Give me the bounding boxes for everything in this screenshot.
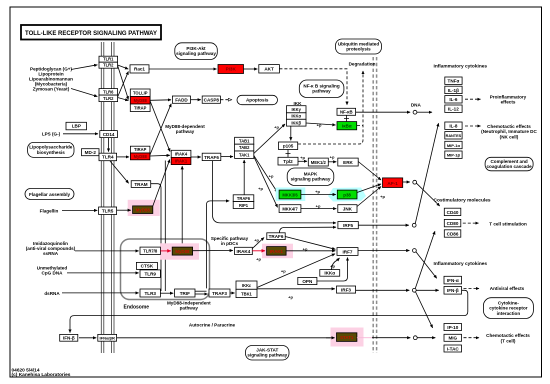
wire TLR4 to TRAM diagonal (110, 161, 129, 183)
svg-text:TLR2: TLR2 (103, 63, 114, 68)
box TAB2 (235, 144, 254, 151)
wire TRAF6 to TAK1 (221, 156, 233, 158)
svg-text:JNK: JNK (343, 207, 353, 212)
svg-text:IκBα: IκBα (342, 124, 352, 129)
svg-text:RIP1: RIP1 (239, 203, 249, 208)
box PI3K red (218, 65, 244, 74)
label Proinflammatory effects (490, 95, 527, 105)
svg-text:signaling pathway: signaling pathway (247, 353, 287, 358)
wire STAT1 to circle6 (372, 337, 410, 339)
box ERK (338, 158, 358, 166)
box STAT1 dark (337, 333, 357, 342)
wire dashed into NF-kB top already; complex tick NF-kB/IkBa (344, 115, 349, 121)
svg-text:+p: +p (281, 268, 286, 273)
box IFN-beta left (60, 334, 78, 341)
wire JNK to AP-1 (357, 187, 381, 207)
svg-text:Costimulatory molecules: Costimulatory molecules (434, 198, 491, 204)
svg-text:Degradation: Degradation (349, 62, 376, 67)
box TLR9 (140, 270, 160, 278)
box p38 green (337, 190, 357, 199)
svg-text:MIP-1β: MIP-1β (447, 153, 461, 158)
svg-text:I-TAC: I-TAC (447, 346, 460, 351)
box TLR7/8 (140, 247, 160, 254)
wire MyD88 TLR5 to IRAK4 diagonal (153, 160, 170, 207)
box MD-2 (82, 149, 100, 156)
wire Tpl2 to MEK12 (298, 160, 307, 162)
box TLR2b (99, 95, 118, 102)
svg-text:effects: effects (501, 100, 516, 105)
wire STAT1 out pink segment (357, 337, 372, 339)
halo pink MyD88 endosome (160, 243, 199, 259)
plasma membrane double lines (101, 42, 114, 353)
svg-text:+p: +p (303, 247, 308, 252)
box MyD88 red (TLR4) (130, 153, 150, 160)
wire CASP8 dashed to Apoptosis open arrow (220, 99, 231, 101)
svg-text:interaction: interaction (497, 311, 521, 316)
wire circle5 up to CD86 (415, 231, 435, 288)
box IRAK1 pdc dark (267, 247, 287, 256)
svg-text:MyD88: MyD88 (136, 208, 151, 213)
svg-text:IRF3: IRF3 (341, 288, 351, 293)
box FADD (172, 96, 190, 103)
node circle3 (412, 223, 416, 227)
svg-text:IKKε: IKKε (242, 283, 251, 288)
wire dashed IFNb to antiviral (464, 288, 480, 290)
label Imidazoquinolin (26, 241, 76, 256)
svg-text:TRAF6: TRAF6 (269, 234, 284, 239)
box MEK1/2 (308, 158, 328, 166)
svg-text:MKK4/7: MKK4/7 (282, 207, 298, 212)
svg-text:p38: p38 (343, 193, 351, 198)
svg-text:in pDCs: in pDCs (221, 241, 239, 246)
node circle5 (412, 288, 416, 292)
wire AKT dashed to NF-kB (279, 69, 347, 105)
box IKKeps (236, 281, 257, 289)
wire TAK1 to MKK36 (254, 156, 278, 193)
box IRAK1 red (171, 157, 191, 164)
wire imidazoquinolin to TLR7/8 (75, 250, 139, 252)
svg-text:biosynthesis: biosynthesis (37, 150, 66, 155)
halo cyan MKK36 (276, 188, 306, 202)
wire TLR3 to TRIF (160, 292, 173, 294)
box TRAF3 (209, 289, 230, 297)
svg-text:T cell stimulation: T cell stimulation (489, 221, 527, 226)
wire IKKb down to p105 (290, 126, 292, 140)
svg-text:IRAK4: IRAK4 (237, 249, 251, 254)
svg-text:IKKγ: IKKγ (292, 107, 302, 112)
wire peptidoglycan to TLR2 (71, 65, 97, 70)
svg-text:coagulation cascade: coagulation cascade (486, 164, 532, 169)
svg-text:TRAM: TRAM (134, 182, 147, 187)
stadium Apoptosis (237, 95, 278, 104)
X wires TLR2 pair to Rac1 and MyD88 stack (118, 65, 129, 69)
box TIRAP (TLR2) (130, 104, 150, 112)
svg-text:IFN-β: IFN-β (447, 288, 459, 293)
wire TLR5 to MyD88 (117, 209, 131, 211)
wire TRAF6pdc elbow to IRF5 (279, 227, 336, 233)
svg-text:TNFα: TNFα (448, 79, 460, 84)
svg-text:MyD88: MyD88 (134, 98, 148, 103)
svg-text:CD80: CD80 (447, 221, 459, 226)
stadium MAPK signaling pathway (287, 168, 334, 186)
svg-text:TRAF6: TRAF6 (204, 155, 219, 160)
svg-text:MIP-1α: MIP-1α (447, 143, 461, 148)
box TRIF (175, 289, 195, 297)
wire circle3 to IL8 group long diagonal (415, 123, 438, 223)
svg-text:IL-8: IL-8 (449, 124, 458, 129)
box TIRAP (TLR4) (130, 146, 150, 153)
svg-text:+p: +p (269, 174, 274, 179)
svg-text:FADD: FADD (175, 98, 188, 103)
svg-text:STAT1: STAT1 (340, 335, 354, 340)
wire MKK36 to p38 (301, 194, 336, 196)
wire IRAK4pdc to IRAK1pdc magenta (252, 250, 265, 252)
node circle6 (413, 336, 417, 340)
svg-text:TRAF3: TRAF3 (212, 291, 227, 296)
stadium JAK-STAT signaling pathway (246, 346, 290, 361)
svg-text:IL-1β: IL-1β (448, 88, 459, 93)
svg-text:TRIF: TRIF (180, 291, 190, 296)
svg-text:IP-10: IP-10 (447, 325, 458, 330)
wire circle4 to IFN-a (416, 252, 437, 278)
wire Rac1 to PI3K (149, 68, 217, 70)
wire CpG to TLR9 (67, 272, 139, 274)
box MIG (444, 334, 462, 341)
box Tpl2 (278, 157, 298, 165)
svg-text:TLR1: TLR1 (103, 57, 114, 62)
halo pink MyD88 TLR5 (128, 200, 160, 216)
stadium Complement and coagulation cascade (485, 157, 533, 171)
svg-text:PI3K: PI3K (226, 67, 237, 72)
halo cyan p38 (328, 188, 366, 202)
wire second vertical to TRIF (164, 161, 166, 292)
svg-text:MKK3/6: MKK3/6 (282, 193, 298, 198)
svg-text:TLR9: TLR9 (144, 272, 156, 277)
box IRAK4 pdc (235, 247, 253, 254)
svg-text:RANTES: RANTES (446, 134, 462, 138)
box RIP1 (233, 202, 254, 209)
node circle2 (413, 180, 417, 184)
wire TBK1 to IRF3 (257, 288, 335, 290)
stadium PI3K-Akt signaling pathway (175, 43, 218, 60)
box IL-8 (445, 122, 462, 129)
label Chemotactic effects (481, 124, 537, 139)
wire PI3K to AKT (244, 68, 258, 70)
svg-text:IFN-α: IFN-α (447, 278, 459, 283)
box TNFa (445, 77, 462, 84)
wire MyD88(TLR2) to FADD (150, 99, 171, 102)
stadium NF-kB signaling pathway (299, 80, 344, 98)
svg-text:+p: +p (258, 186, 263, 191)
label Peptidoglycan block (29, 67, 73, 92)
svg-text:IRAK1: IRAK1 (175, 159, 188, 164)
halo pink IRAK1 pdc (262, 244, 293, 259)
svg-text:TAK1: TAK1 (239, 152, 250, 157)
svg-text:TOLLIP: TOLLIP (133, 90, 148, 95)
svg-text:Zymosan (Yeast): Zymosan (Yeast) (33, 87, 70, 92)
svg-text:+p: +p (288, 294, 293, 299)
svg-text:Inflammatory cytokines: Inflammatory cytokines (434, 261, 488, 267)
svg-text:TIRAP: TIRAP (134, 147, 147, 152)
wire circle5 to IFN-b (416, 289, 439, 291)
svg-text:TLR2: TLR2 (103, 96, 114, 101)
svg-text:MyD88: MyD88 (134, 154, 148, 159)
svg-text:LPS (G-): LPS (G-) (42, 132, 61, 137)
svg-text:TRAF6: TRAF6 (237, 196, 251, 201)
node circle4 (413, 249, 417, 253)
wire TRAM elbow down to TRIF (151, 184, 161, 291)
box MKK3/6 green (279, 190, 301, 199)
box IKKgamma (287, 106, 307, 113)
box IRF7 (337, 248, 358, 256)
label Specific pathway in pDCs (211, 236, 249, 246)
svg-text:+p: +p (330, 155, 335, 160)
wire MKK47 to JNK (301, 208, 336, 210)
svg-text:+p: +p (300, 155, 305, 160)
box Rac1 (130, 65, 149, 73)
svg-text:pathway: pathway (176, 129, 195, 134)
box CD14 (100, 131, 118, 138)
svg-text:TAB1: TAB1 (239, 138, 250, 143)
svg-text:Autocrine / Paracrine: Autocrine / Paracrine (189, 322, 236, 327)
halo pink STAT1 (331, 328, 364, 347)
box TLR5 (99, 207, 117, 215)
box IFN-a (444, 276, 462, 284)
wire zymosan to TLR6/TLR2 (71, 89, 97, 97)
svg-text:CD14: CD14 (103, 132, 115, 137)
nuclear membrane dashed grey (373, 57, 376, 353)
svg-text:(NK cell): (NK cell) (500, 134, 519, 139)
box AKT (259, 65, 280, 73)
box CD80 (444, 219, 461, 226)
box TLR6 (99, 89, 118, 96)
box IL-12 (445, 105, 462, 112)
svg-text:IKKβ: IKKβ (291, 120, 301, 125)
box IP-10 (444, 324, 462, 331)
wire TLR4 to TIRAP stack (117, 156, 129, 158)
box MIP-1b (445, 151, 462, 158)
svg-text:pathway: pathway (180, 306, 199, 311)
label MyD88-independent pathway (167, 301, 211, 311)
wire dashed degradation path from p105 and IkBa (298, 71, 363, 144)
stadium Cytokine-cytokine receptor interaction (483, 298, 533, 319)
box LBP (66, 122, 87, 130)
box I-TAC (444, 345, 462, 352)
box IL-6 (445, 96, 462, 103)
wire TRAF3 to TBK1 (230, 292, 235, 294)
svg-text:(c) Kanehisa Laboratories: (c) Kanehisa Laboratories (12, 372, 71, 378)
wire MEK to ERK (328, 161, 336, 163)
svg-text:NF-κ B signaling: NF-κ B signaling (303, 83, 339, 88)
wire TRAF6 down elbow to IRF5 (213, 161, 337, 223)
svg-text:Antiviral effects: Antiviral effects (490, 286, 525, 291)
box IFNabR (98, 334, 117, 341)
box TLR4 (99, 153, 117, 161)
wire TLR7/8 to MyD88 magenta (160, 250, 170, 252)
svg-text:TIRAP: TIRAP (134, 105, 147, 110)
node circle1 DNA (413, 110, 417, 114)
svg-text:MAPK: MAPK (304, 171, 318, 176)
svg-text:MEK1/2: MEK1/2 (311, 160, 327, 165)
svg-text:LBP: LBP (72, 124, 81, 129)
stadium Ubiquitin mediated proteolysis (336, 39, 382, 54)
wire IKKb to IkBa (306, 123, 336, 125)
svg-text:pathway: pathway (312, 89, 331, 94)
svg-text:CpG DNA: CpG DNA (42, 270, 64, 275)
svg-text:Flagellar assembly: Flagellar assembly (29, 192, 71, 197)
box MyD88 dark endosome (172, 247, 192, 255)
box IRF5 (338, 222, 358, 229)
box IKKalpha2 (287, 113, 307, 120)
box CTSK (136, 262, 157, 269)
svg-text:Inflammatory cytokines: Inflammatory cytokines (434, 64, 488, 70)
box JNK (338, 205, 357, 213)
wire CD14 down to TLR4 (108, 138, 110, 152)
box TAB1 (235, 137, 254, 144)
svg-text:IFN-β: IFN-β (63, 336, 75, 341)
wire dsRNA to TLR3 (62, 292, 139, 294)
svg-text:IKK: IKK (294, 101, 303, 106)
wire arrowhead into STAT1 redraw (326, 337, 335, 339)
wire MyD88end to IRAK4pdc (193, 250, 233, 252)
box NF-kB (337, 108, 356, 115)
box TOLLIP (130, 89, 150, 97)
box CD86 (444, 230, 461, 237)
wire TRIF double line to TRAF3 (195, 290, 207, 292)
svg-text:dsRNA: dsRNA (44, 291, 60, 296)
svg-text:p105: p105 (283, 144, 294, 149)
svg-text:OPN: OPN (302, 279, 313, 284)
box IL-1b (445, 86, 462, 93)
svg-text:IKKα: IKKα (291, 114, 301, 119)
svg-text:+p: +p (254, 238, 259, 243)
svg-text:AP-1: AP-1 (387, 181, 398, 186)
wire MyD88(TLR4) to IRAK4 (150, 154, 170, 157)
svg-text:IFNα/βR: IFNα/βR (100, 335, 115, 340)
label Chemotactic effects (T cell) (486, 333, 530, 343)
wire flagellin to TLR5 (62, 209, 97, 211)
svg-text:TLR5: TLR5 (102, 208, 114, 213)
box IKKbeta (287, 119, 307, 126)
box TLR1 (99, 56, 118, 62)
wire IFNabR to STAT1 long (117, 337, 334, 339)
svg-text:+p: +p (317, 122, 322, 127)
wire TRAF6pdc to IRF7 diagonal (285, 237, 335, 250)
box MKK4/7 (279, 205, 301, 213)
svg-text:AKT: AKT (264, 67, 274, 72)
wire circle1 to cytokines (417, 111, 432, 113)
svg-text:TLR6: TLR6 (103, 89, 114, 94)
wire dashed IL8 to chemotactic (465, 125, 481, 127)
svg-text:IRAK1: IRAK1 (270, 249, 284, 254)
svg-text:TBK1: TBK1 (241, 291, 252, 296)
box TBK1 (236, 289, 257, 297)
svg-text:IL-12: IL-12 (448, 107, 459, 112)
tick p105/Tpl2 (286, 150, 291, 158)
svg-text:+p: +p (315, 189, 320, 194)
svg-text:ssRNA: ssRNA (43, 251, 59, 256)
box TRAF6 pdc (267, 233, 285, 240)
svg-text:MIG: MIG (448, 336, 457, 341)
box IkBa green (337, 122, 357, 130)
svg-text:IRF5: IRF5 (343, 223, 353, 228)
wire p38 to AP-1 (357, 184, 381, 193)
svg-text:signaling pathway: signaling pathway (291, 177, 331, 182)
svg-text:IRAK4: IRAK4 (175, 152, 188, 157)
box MIP-1a (445, 141, 462, 148)
svg-text:TLR4: TLR4 (102, 155, 114, 160)
box CD40 (444, 208, 461, 215)
wire IRF5 to circle3 (358, 224, 409, 226)
svg-text:IL-6: IL-6 (449, 97, 458, 102)
svg-text:Rac1: Rac1 (134, 67, 145, 72)
box OPN (298, 277, 317, 284)
svg-text:CASP8: CASP8 (204, 98, 220, 103)
svg-text:TAB2: TAB2 (239, 145, 250, 150)
title box (21, 25, 161, 40)
box MyD88 dark (TLR5) (133, 206, 153, 214)
svg-text:IRF7: IRF7 (343, 249, 353, 254)
svg-text:+p: +p (256, 256, 261, 261)
svg-text:TLR7/8: TLR7/8 (143, 249, 158, 254)
box TLR2 (99, 62, 118, 68)
wire TAK1 to IKKbeta (254, 124, 285, 154)
svg-text:ERK: ERK (343, 160, 353, 165)
wire TRAF3 vertical up elbow to TRAF6/RIP1 (206, 201, 229, 289)
svg-text:MyD88: MyD88 (175, 249, 190, 254)
box IFN-b right (444, 287, 462, 295)
svg-text:MD-2: MD-2 (85, 150, 97, 155)
svg-text:NF-κB: NF-κB (340, 110, 353, 115)
endosome rounded rect (121, 239, 210, 300)
box IRAK4 (171, 150, 191, 157)
svg-text:+p: +p (316, 203, 321, 208)
svg-text:+p: +p (380, 194, 385, 199)
svg-text:TOLL-LIKE RECEPTOR SIGNALING P: TOLL-LIKE RECEPTOR SIGNALING PATHWAY (25, 30, 158, 37)
wire ERK to AP-1 (358, 162, 381, 181)
wire dashed MIG to chemotactic T cell (464, 337, 480, 339)
box MyD88 red (TLR2) (130, 97, 150, 105)
svg-text:Tpl2: Tpl2 (283, 159, 293, 164)
wire TBK1 to IRF7 diagonal (257, 254, 335, 288)
svg-text:CTSK: CTSK (141, 264, 154, 269)
box TLR3 (140, 289, 160, 297)
svg-text:+p: +p (274, 125, 279, 130)
wire TRAF6RIP1 up to TAK1 (243, 160, 245, 195)
wire LPS to CD14 (63, 133, 98, 135)
wire IRAK1 to TRAF6 (191, 156, 201, 158)
wire FADD to CASP8 (191, 99, 201, 101)
box AP-1 red (383, 178, 403, 188)
svg-text:signaling pathway: signaling pathway (176, 51, 216, 56)
wire IKKa up to IRF7 (332, 258, 340, 270)
wire IRAK1pdc to IRF7 (286, 250, 335, 252)
wire autocrine elbow from IFN-beta right box (70, 290, 468, 332)
wire MyD88(TLR2) to IRAK4 diagonal (150, 101, 170, 152)
wire AP-1 to circle2 (403, 181, 410, 183)
box CASP8 (202, 96, 220, 103)
wire NF-kB to DNA (356, 111, 411, 113)
stadium Flagellar assembly (25, 189, 74, 200)
box TAK1 (235, 151, 254, 158)
wire IFN-beta to IFNabR (79, 337, 96, 339)
wire IRAK4pdc to TRAF6pdc (252, 238, 264, 249)
stadium Lipopolysaccharide biosynthesis (28, 142, 74, 157)
box TRAF6 (TRIF) (233, 195, 254, 202)
svg-text:PI3K-Akt: PI3K-Akt (186, 46, 206, 51)
wire circle2 to CD40 (416, 183, 439, 206)
wire dashed IL6 to proinflammatory (465, 98, 481, 100)
